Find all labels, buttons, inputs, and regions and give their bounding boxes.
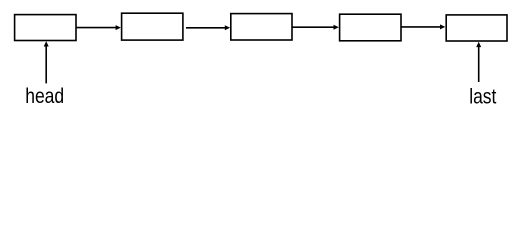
- node box 2: [122, 13, 183, 40]
- svg-text:last: last: [469, 84, 496, 108]
- wire arrow node4 to node5: [401, 24, 445, 29]
- last pointer arrow: [476, 42, 481, 82]
- head pointer arrow: [44, 41, 49, 83]
- node box 4: [340, 14, 401, 41]
- wire arrow node2 to node3: [186, 25, 230, 30]
- svg-text:head: head: [25, 84, 64, 108]
- node box 1 (head node): [15, 15, 76, 41]
- node box 5 (last node): [446, 15, 507, 41]
- wire arrow node3 to node4: [292, 25, 339, 30]
- node box 3: [231, 14, 292, 40]
- wire arrow node1 to node2: [76, 25, 121, 30]
